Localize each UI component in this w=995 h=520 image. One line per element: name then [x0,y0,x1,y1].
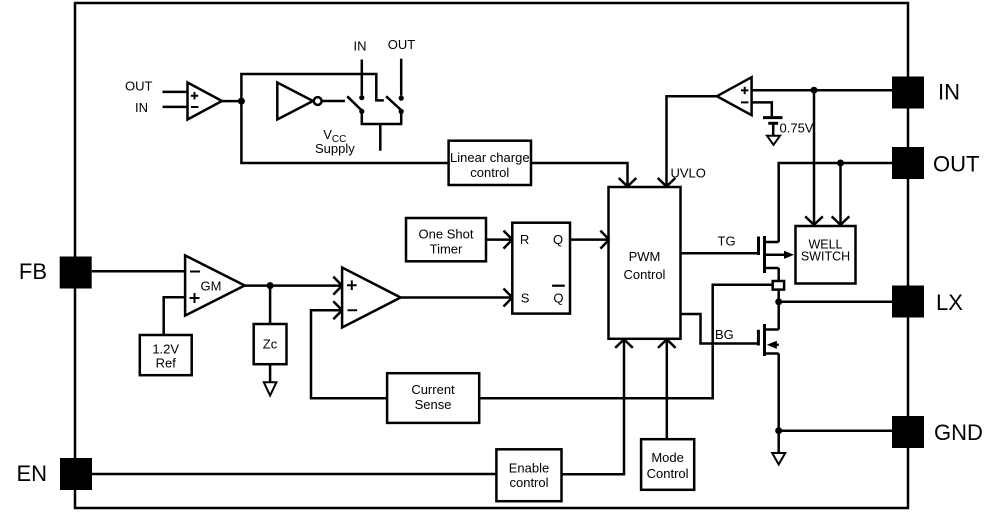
wire junction to Zc [269,286,272,324]
svg-text:GM: GM [201,279,222,294]
node GM output junction [267,282,274,289]
wire GM plus input to 1.2V ref [164,297,185,335]
node A (comparator output junction) [238,98,245,105]
svg-text:TG: TG [718,234,736,249]
svg-text:UVLO: UVLO [671,166,706,181]
wire IN net [752,89,892,92]
wire PWM TG output [681,252,758,255]
node IN branch [811,87,818,94]
node OUT branch [837,160,844,167]
wire U1 output [222,100,241,103]
pin IN [892,77,960,109]
pin EN [16,458,92,490]
wire mode control to PWM [658,339,676,439]
pin LX [892,286,963,318]
ground (power stage) [772,453,785,465]
pin FB [19,257,92,289]
wire current sense to minus input [311,301,387,398]
pin GND [892,416,983,448]
svg-text:One Shot: One Shot [419,227,474,242]
svg-text:Supply: Supply [315,141,355,156]
comparator U8 (PWM comparator) [342,268,401,328]
wire OUT to WELL SWITCH [832,163,850,225]
svg-text:Sense: Sense [415,397,452,412]
svg-text:IN: IN [135,100,148,115]
1.2V Ref box [140,335,192,375]
svg-text:Current: Current [411,382,455,397]
svg-text:Mode: Mode [651,450,684,465]
svg-text:Enable: Enable [509,460,549,475]
svg-text:R: R [520,232,529,247]
linear charge control box [449,141,531,185]
svg-text:EN: EN [16,461,47,486]
wire IN to WELL SWITCH [805,90,823,225]
wire Q to PWM [570,231,609,249]
enable control box [496,449,561,501]
wire U1 inputs [163,92,188,107]
mode control box [641,439,694,490]
svg-text:Control: Control [624,267,666,282]
wire switch common rail [361,111,403,150]
wire U3 minus input [752,102,772,116]
switch S2 (OUT side) [386,96,404,115]
svg-text:0.75V: 0.75V [780,121,814,136]
svg-text:Ref: Ref [156,356,177,371]
wire UVLO to PWM [658,96,717,186]
wire node A to OUT switch [241,74,383,101]
switch S1 (IN side) [347,95,364,114]
transistor Q2 (BG low-side FET) [758,324,778,431]
one shot timer box [406,218,486,261]
comparator U3 (UVLO, 0.75V) [717,77,752,115]
svg-text:Control: Control [647,466,689,481]
wire to ground [777,431,780,453]
wire FB to GM [92,270,185,273]
ground (Zc) [264,382,277,395]
inverter U2 [277,83,321,120]
svg-text:Linear charge: Linear charge [450,150,530,165]
svg-text:GND: GND [934,420,983,445]
wire timer to R [486,231,512,249]
wire U2 output [322,100,345,103]
label Vcc Supply [315,127,355,156]
svg-text:LX: LX [936,290,963,315]
svg-text:OUT: OUT [125,78,153,93]
amplifier GM [185,255,245,315]
wire U8 output to S [401,289,513,307]
svg-text:IN: IN [354,38,367,53]
pin OUT [892,147,979,179]
wire EN to enable control [92,473,497,476]
wire OUT net [779,163,892,242]
wire PWM BG output [681,314,758,344]
svg-text:OUT: OUT [933,152,979,177]
svg-text:SWITCH: SWITCH [801,250,850,264]
svg-text:control: control [509,475,548,490]
wire GND [779,429,892,432]
svg-text:Timer: Timer [430,242,463,257]
node LX junction [775,298,782,305]
svg-text:OUT: OUT [388,37,416,52]
comparator U1 (OUT/IN supply comparator) [125,78,222,119]
ground (0.75V ref) [767,136,780,145]
svg-text:Q: Q [553,291,563,306]
capacitor 0.75V reference [763,118,783,136]
wire square to LX [777,290,780,330]
svg-text:1.2V: 1.2V [152,342,179,357]
svg-text:FB: FB [19,259,47,284]
wire GM output [245,277,342,295]
transistor Q1 (TG high-side FET) [759,236,795,281]
svg-text:S: S [521,291,530,306]
svg-text:Zc: Zc [263,337,278,352]
svg-text:IN: IN [938,80,960,105]
PWM Control box [609,187,681,339]
wire linear charge control to PWM [531,163,636,187]
current sense box [387,373,479,423]
wire IN to switch contact [361,60,364,96]
impedance Zc box [254,324,287,364]
wire LX [779,301,892,304]
wire node A to linear charge control [241,101,448,163]
wire OUT to switch contact [400,59,403,96]
body node square [773,281,784,290]
svg-text:PWM: PWM [629,249,661,264]
svg-text:Q: Q [553,232,563,247]
wire Zc to ground [269,364,272,382]
WELL SWITCH box [796,226,856,284]
flip-flop U9 [512,223,570,314]
svg-text:BG: BG [715,327,734,342]
svg-text:control: control [470,165,509,180]
node GND junction [775,427,782,434]
wire square to current sense net [479,285,773,399]
wire enable control to PWM [562,339,633,474]
